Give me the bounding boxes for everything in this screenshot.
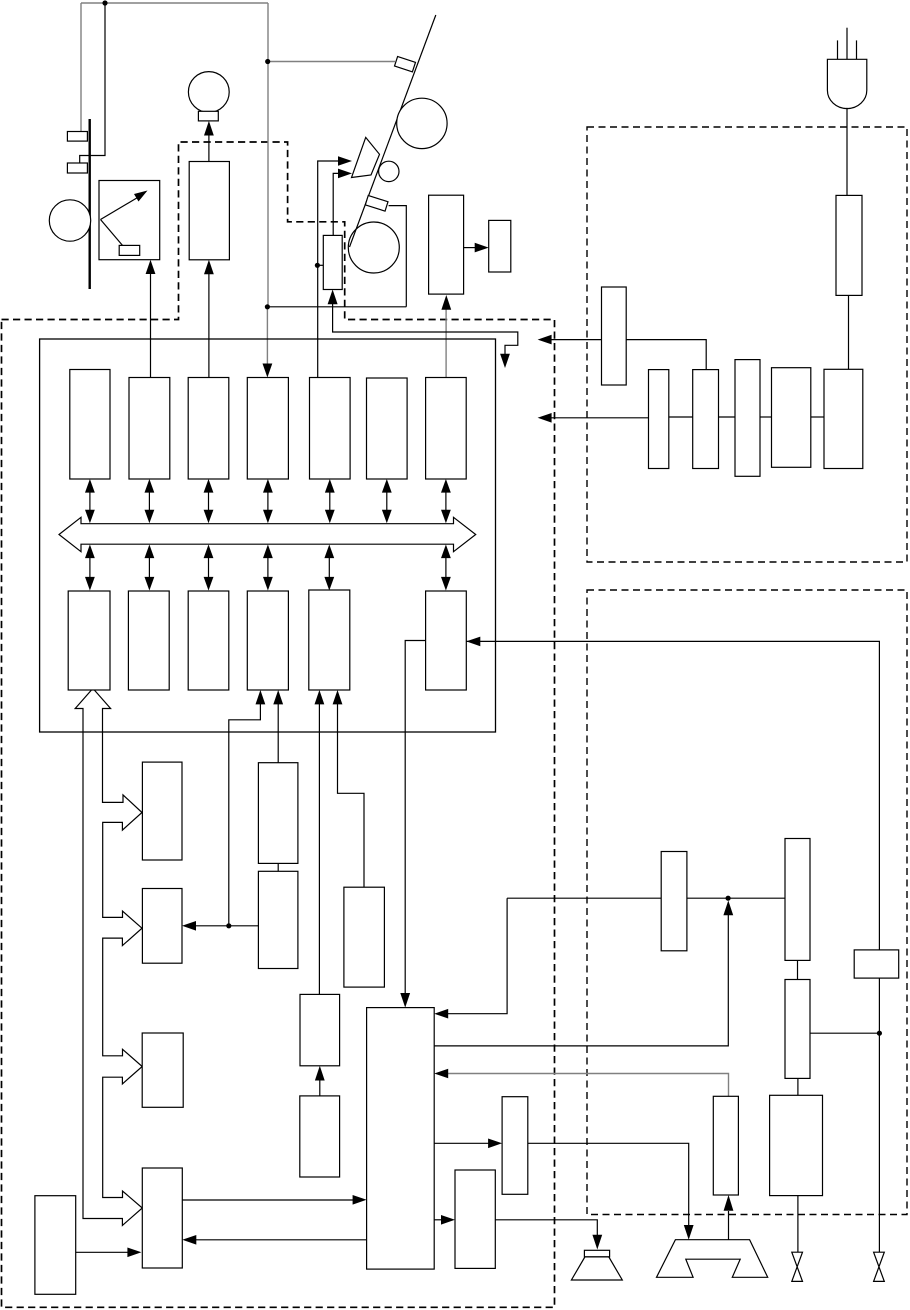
main IC block E [367,1008,435,1270]
wire grey right drop [267,3,269,307]
arrowhead into main IC top [400,993,410,1008]
block L3 [188,591,229,690]
wire main IC to D [196,1239,367,1241]
arrowhead into L6 right [466,637,480,647]
rectifier block [824,369,863,468]
rec amp block [429,195,464,294]
block M [455,1170,495,1268]
wire I to jack1 [797,1196,799,1253]
block U2 [129,378,170,480]
block L6 [426,591,467,690]
wire L4 right from eq1 [277,703,279,763]
jack symbol 1 [792,1252,803,1281]
ps block2 [649,370,669,469]
arrowhead into L5 bottom left [315,690,325,704]
ps block4 [735,360,760,477]
tilted guide upper [395,57,416,72]
capstan circle [348,222,399,273]
block L2 [128,591,169,690]
junction top [102,0,107,5]
ps block3 [693,370,719,469]
updown arrow u2 [145,479,155,523]
wire L5 right from osc [338,703,365,887]
updown arrow u6 [382,479,392,523]
arrowhead into block4 [263,364,273,378]
key input hollow arrow chain [75,688,142,1225]
updown arrow d2 [145,545,155,591]
junction right [265,59,270,64]
updown arrow u7 [441,479,451,523]
AC plug body [827,59,866,108]
junction F1-G line [726,896,731,901]
meter needle [101,196,142,220]
block U4 [247,378,288,480]
feedback wire main IC to junction [434,914,728,1046]
block U6 [367,378,408,479]
wire M to speaker [495,1220,597,1236]
eq block 1 [258,763,298,864]
block I [770,1095,823,1195]
updown arrow u5 [325,479,335,523]
motor circle [188,72,229,113]
tuner block G [785,839,810,961]
arrowhead into L4 bottom right [273,690,283,704]
block L4 [247,591,288,690]
block P1 [300,994,340,1065]
updown arrow u1 [85,479,95,523]
wire vertical to jack2 [878,978,880,1252]
wire L5 left from p-column [318,703,320,994]
stub junction to bias rect [317,264,323,266]
L6 right input wire [466,641,879,950]
meter coil [119,245,140,255]
connector eq1 eq2 [277,863,279,871]
wire corner feeding main IC right top [507,897,661,899]
pinch circle [379,161,399,181]
dashed boundary left (mechanism/control unit) [2,142,555,1307]
power chain connectors [669,416,693,418]
L6 left wire to main IC [405,641,425,996]
mech base frame [389,206,407,307]
wire head-arrow 2 from bias rect [333,173,338,235]
wire main IC to M arrow [434,1219,442,1221]
bus box [40,339,496,732]
osc block N [344,887,385,987]
block K [502,1097,528,1195]
level block H [854,950,899,978]
power line reg1 right to ps3 [626,340,706,370]
key block A [142,762,182,860]
wire mic amp to main IC (grey) [448,1074,729,1097]
wire L to D [76,1251,128,1253]
dashed boundary bottom-right (audio/tuner unit) [587,590,907,1215]
power line to arrow2 [549,417,649,419]
regulator1 [602,287,627,385]
plug prong left [837,40,839,59]
block U3 [188,378,229,480]
key block B [142,889,182,964]
block U1 [70,370,110,480]
idler circle left [49,200,90,241]
power line from reg1 [549,339,602,341]
speaker cone [571,1250,622,1280]
bus double arrow [59,517,476,551]
block L5 [309,590,350,690]
arrowhead into L4 bottom left [256,690,266,704]
switch contact upper [67,132,87,142]
wire grey down to block4 [266,307,268,371]
switch contact lower [67,163,87,173]
wire G to G2 connector [797,960,799,979]
arrowhead small down near box corner [500,354,510,368]
motor mount [198,111,218,121]
key block D [142,1168,182,1268]
arrowhead into L5 bottom right [333,690,343,704]
dashed boundary top-right (power supply unit) [587,127,907,562]
block G2 [785,980,810,1079]
IF block F1 [661,852,687,951]
ps block5 [772,368,811,468]
wire head-arrow 1 [318,161,339,378]
arrow rec amp to out rect [464,247,477,249]
block U7 [426,378,467,480]
wire from junction to mech base [267,306,406,308]
junction bias [315,263,320,268]
roller circle top [397,98,447,148]
jack symbol 2 [874,1252,885,1281]
bus vertical double arrows upper [85,479,451,591]
updown arrow d3 [204,545,214,591]
wire transformer to rectifier [848,295,850,369]
wire D to main IC [182,1199,353,1201]
tilted guide lower [365,196,388,212]
plug prong middle [846,28,848,60]
wire C2 to B with junction [196,925,258,927]
wire black from top junction to lower contact [80,3,105,163]
bias rect [323,235,342,289]
wire G2 right to vertical junction [810,1032,879,1034]
updown arrow d1 [85,545,95,591]
wire bias arrow chain to right-step [333,303,518,354]
wire grey left drop to switch contact [80,3,82,132]
updown arrow d6 [441,545,451,591]
tape line [350,15,436,247]
arrow block3 to drive [208,272,210,378]
updown arrow d4 [263,545,273,591]
wire main IC to K [434,1142,490,1144]
updown arrow u3 [204,479,214,523]
head trapezoid [352,137,380,177]
mic amp block J [713,1096,738,1195]
updown arrow d5 [324,545,334,591]
key block C [142,1033,183,1107]
block P2 [300,1096,340,1177]
wire grey block7 up to drive block [445,310,447,378]
wire grey to tilted guide [268,61,395,63]
transformer [836,195,862,295]
block U5 [310,378,351,480]
junction mech [265,304,270,309]
arrow drive to motor [208,133,210,162]
wire G2 to I connector [797,1078,799,1095]
arrowhead up into bias rect [328,290,338,305]
meter link [101,220,124,247]
meter box [99,181,160,260]
wire top loop grey horizontal [81,2,268,4]
wire K to head arrow down [528,1143,689,1226]
head bridge symbol [657,1240,768,1278]
out rect [489,220,511,272]
lever bar [88,119,90,289]
plug prong right [856,40,858,59]
updown arrow u4 [263,479,273,523]
wire P2 to P1 arrow [319,1080,321,1096]
block L1 [68,591,110,690]
wire L4 left arrow chain [229,703,261,926]
plug cord [846,108,848,196]
wire head to mic amp up arrow [728,1211,730,1240]
motor drive block [189,162,229,260]
arrow block2 to meter [150,272,152,378]
block L [35,1196,76,1295]
arrowhead into drive block from block7 wire [441,295,451,310]
eq block 2 [258,871,298,968]
